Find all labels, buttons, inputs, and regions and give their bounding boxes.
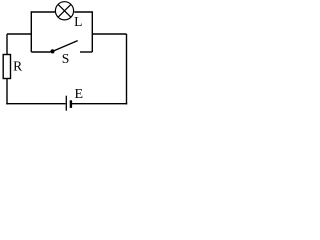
wire switch right lead <box>80 51 92 53</box>
battery E long plate <box>65 96 67 111</box>
wire top-right segment <box>74 11 92 13</box>
wire left branch-node vertical <box>30 11 32 52</box>
battery E short plate <box>70 100 72 108</box>
lamp L <box>55 2 73 20</box>
label R <box>13 59 23 74</box>
wire mid-right horizontal <box>92 33 126 35</box>
svg-text:R: R <box>13 59 23 74</box>
wire bottom-right segment <box>72 103 127 105</box>
wire bottom-left segment <box>6 103 65 105</box>
svg-text:S: S <box>62 51 70 66</box>
svg-text:L: L <box>74 14 82 29</box>
wire resistor top lead <box>6 34 8 55</box>
wire mid-left horizontal <box>7 33 31 35</box>
label L <box>74 14 82 29</box>
label E <box>75 87 84 102</box>
switch S lever <box>53 41 78 52</box>
wire top-left segment <box>31 11 55 13</box>
label S <box>62 51 70 66</box>
wire right outer vertical <box>126 34 128 104</box>
wire right branch-node vertical <box>91 11 93 52</box>
svg-text:E: E <box>75 87 84 102</box>
switch S pivot dot <box>50 49 54 53</box>
wire resistor bottom lead / left outer vertical <box>6 79 8 105</box>
resistor R box <box>3 55 10 79</box>
wire switch left lead <box>31 51 50 53</box>
